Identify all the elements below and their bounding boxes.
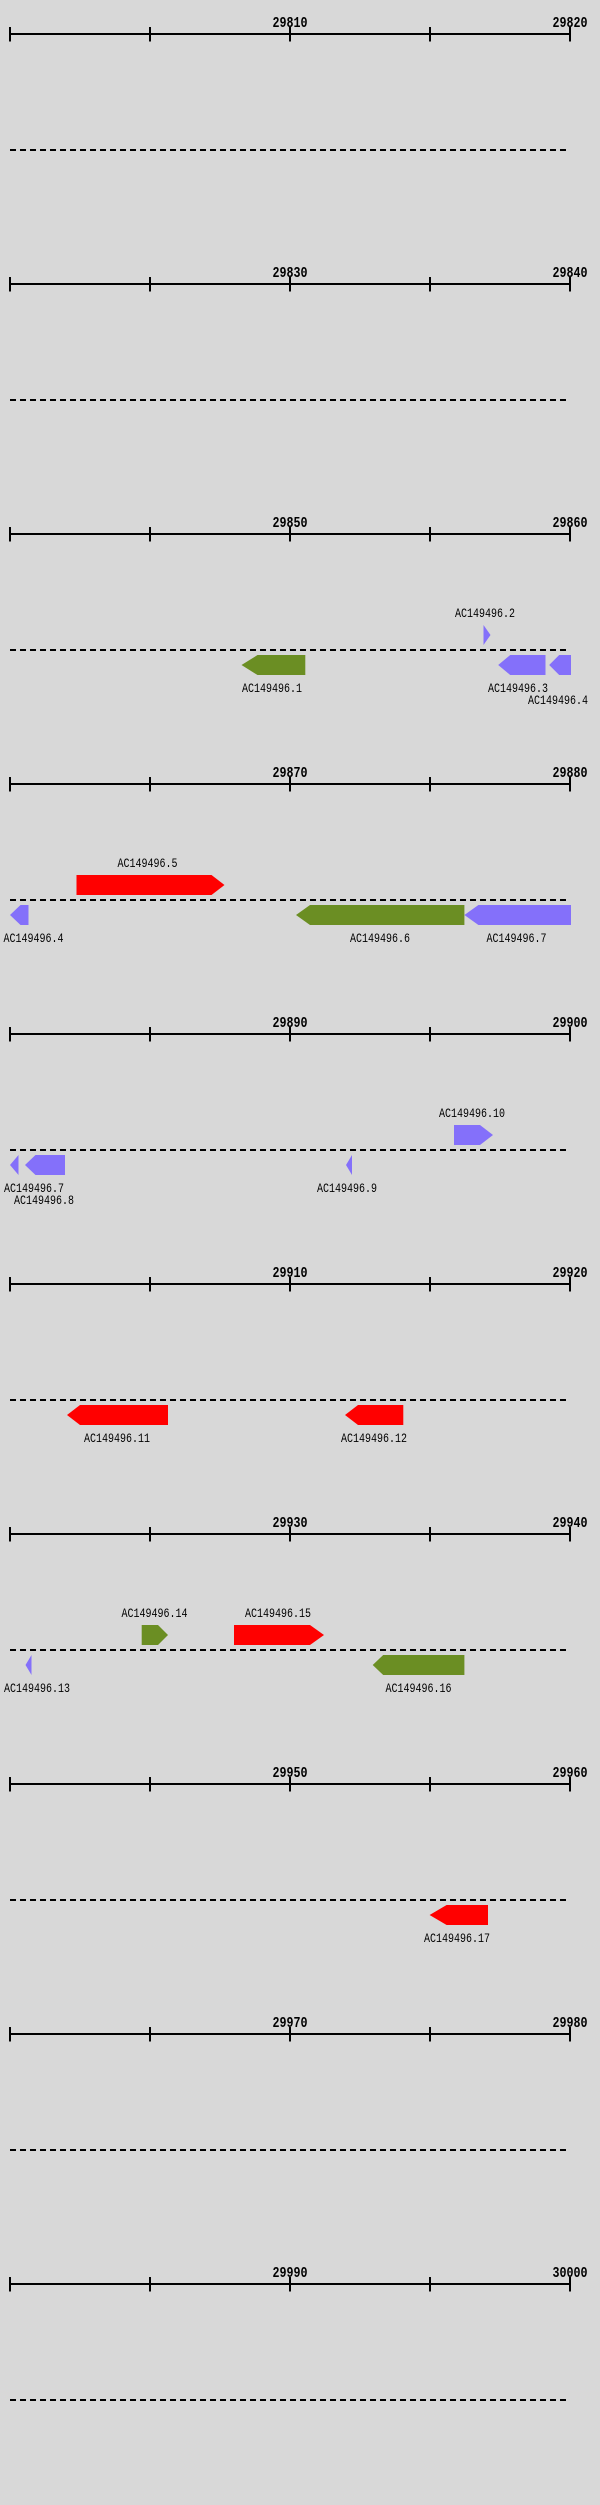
- svg-text:29990: 29990: [273, 2265, 308, 2282]
- feature AC149496.1 (reverse, green): [242, 655, 306, 675]
- panel 4 sequence dashed line: [10, 899, 570, 901]
- panel 8 tick 3: [289, 1777, 291, 1792]
- panel 6 tick 4: [429, 1277, 431, 1292]
- panel 1 tick 2: [149, 27, 151, 42]
- svg-text:29940: 29940: [553, 1515, 588, 1532]
- feature AC149496.3 (reverse, purple): [498, 655, 545, 675]
- panel 3 ruler line: [9, 533, 571, 535]
- panel 2 tick 5: [569, 277, 571, 292]
- feature AC149496.4 continued (reverse, purple): [10, 905, 29, 925]
- feature AC149496.16 (reverse, green): [373, 1655, 465, 1675]
- svg-text:30000: 30000: [553, 2265, 588, 2282]
- panel 3 sequence dashed line: [10, 649, 570, 651]
- feature AC149496.17 (reverse, red): [430, 1905, 488, 1925]
- panel 8 tick 1: [9, 1777, 11, 1792]
- feature AC149496.4 (reverse, purple, clipped at panel edge): [549, 655, 571, 675]
- svg-text:AC149496.9: AC149496.9: [317, 1181, 377, 1196]
- svg-text:29970: 29970: [273, 2015, 308, 2032]
- svg-text:AC149496.10: AC149496.10: [439, 1106, 505, 1121]
- svg-text:AC149496.4: AC149496.4: [4, 931, 64, 946]
- panel 8 ruler line: [9, 1783, 571, 1785]
- feature AC149496.2 (forward, purple): [484, 625, 491, 645]
- panel 6 tick 5: [569, 1277, 571, 1292]
- svg-text:29980: 29980: [553, 2015, 588, 2032]
- svg-text:29930: 29930: [273, 1515, 308, 1532]
- svg-text:AC149496.16: AC149496.16: [386, 1681, 452, 1696]
- panel 4 tick 2: [149, 777, 151, 792]
- panel 8 tick 2: [149, 1777, 151, 1792]
- svg-text:29820: 29820: [553, 15, 588, 32]
- svg-text:29840: 29840: [553, 265, 588, 282]
- panel 3 tick 2: [149, 527, 151, 542]
- panel 10 tick 1: [9, 2277, 11, 2292]
- panel 10 ruler line: [9, 2283, 571, 2285]
- panel 1 ruler line: [9, 33, 571, 35]
- svg-text:AC149496.7: AC149496.7: [487, 931, 547, 946]
- panel 4 tick 3: [289, 777, 291, 792]
- panel 5 tick 1: [9, 1027, 11, 1042]
- svg-text:AC149496.11: AC149496.11: [84, 1431, 150, 1446]
- panel 10 tick 5: [569, 2277, 571, 2292]
- svg-text:29910: 29910: [273, 1265, 308, 1282]
- svg-text:29880: 29880: [553, 765, 588, 782]
- panel 7 tick 3: [289, 1527, 291, 1542]
- panel 10 sequence dashed line: [10, 2399, 570, 2401]
- panel 2 ruler line: [9, 283, 571, 285]
- panel 7 tick 2: [149, 1527, 151, 1542]
- svg-text:29920: 29920: [553, 1265, 588, 1282]
- svg-text:AC149496.1: AC149496.1: [242, 681, 302, 696]
- panel 6 tick 3: [289, 1277, 291, 1292]
- panel 2 tick 1: [9, 277, 11, 292]
- panel 2 sequence dashed line: [10, 399, 570, 401]
- panel 9 tick 1: [9, 2027, 11, 2042]
- panel 8 sequence dashed line: [10, 1899, 570, 1901]
- panel 10 tick 3: [289, 2277, 291, 2292]
- feature AC149496.7 continued (reverse, purple): [10, 1155, 19, 1175]
- panel 2 tick 3: [289, 277, 291, 292]
- svg-text:29870: 29870: [273, 765, 308, 782]
- feature AC149496.5 (forward, red): [77, 875, 225, 895]
- svg-text:AC149496.15: AC149496.15: [245, 1606, 311, 1621]
- panel 4 ruler line: [9, 783, 571, 785]
- panel 9 ruler line: [9, 2033, 571, 2035]
- panel 8 tick 5: [569, 1777, 571, 1792]
- panel 9 tick 2: [149, 2027, 151, 2042]
- panel 2 tick 4: [429, 277, 431, 292]
- panel 4 tick 1: [9, 777, 11, 792]
- panel 3 tick 5: [569, 527, 571, 542]
- panel 9 tick 4: [429, 2027, 431, 2042]
- svg-text:29830: 29830: [273, 265, 308, 282]
- feature AC149496.10 (forward, purple): [454, 1125, 493, 1145]
- panel 4 tick 5: [569, 777, 571, 792]
- panel 1 tick 1: [9, 27, 11, 42]
- svg-text:29810: 29810: [273, 15, 308, 32]
- panel 10 tick 4: [429, 2277, 431, 2292]
- svg-text:AC149496.13: AC149496.13: [4, 1681, 70, 1696]
- panel 6 tick 1: [9, 1277, 11, 1292]
- feature AC149496.6 (reverse, green): [296, 905, 464, 925]
- panel 3 tick 1: [9, 527, 11, 542]
- panel 5 tick 4: [429, 1027, 431, 1042]
- svg-text:AC149496.6: AC149496.6: [350, 931, 410, 946]
- panel 9 sequence dashed line: [10, 2149, 570, 2151]
- panel 6 sequence dashed line: [10, 1399, 570, 1401]
- panel 3 tick 3: [289, 527, 291, 542]
- feature AC149496.15 (forward, red): [234, 1625, 324, 1645]
- svg-text:29900: 29900: [553, 1015, 588, 1032]
- panel 8 tick 4: [429, 1777, 431, 1792]
- panel 3 tick 4: [429, 527, 431, 542]
- panel 5 tick 2: [149, 1027, 151, 1042]
- feature AC149496.12 (reverse, red): [345, 1405, 403, 1425]
- panel 5 tick 5: [569, 1027, 571, 1042]
- panel 5 sequence dashed line: [10, 1149, 570, 1151]
- svg-text:29850: 29850: [273, 515, 308, 532]
- panel 7 tick 5: [569, 1527, 571, 1542]
- panel 9 tick 3: [289, 2027, 291, 2042]
- svg-text:AC149496.8: AC149496.8: [14, 1193, 74, 1208]
- feature AC149496.9 (reverse, purple, tiny): [346, 1155, 352, 1175]
- panel 7 tick 4: [429, 1527, 431, 1542]
- panel 10 tick 2: [149, 2277, 151, 2292]
- panel 1 sequence dashed line: [10, 149, 570, 151]
- svg-text:29860: 29860: [553, 515, 588, 532]
- panel 1 tick 3: [289, 27, 291, 42]
- feature AC149496.14 (forward, green): [142, 1625, 168, 1645]
- panel 9 tick 5: [569, 2027, 571, 2042]
- panel 4 tick 4: [429, 777, 431, 792]
- panel 5 ruler line: [9, 1033, 571, 1035]
- panel 2 tick 2: [149, 277, 151, 292]
- svg-text:29890: 29890: [273, 1015, 308, 1032]
- svg-text:AC149496.4: AC149496.4: [528, 693, 588, 708]
- feature AC149496.11 (reverse, red): [67, 1405, 168, 1425]
- svg-text:29950: 29950: [273, 1765, 308, 1782]
- panel 6 ruler line: [9, 1283, 571, 1285]
- svg-text:AC149496.14: AC149496.14: [122, 1606, 188, 1621]
- panel 7 ruler line: [9, 1533, 571, 1535]
- panel 1 tick 4: [429, 27, 431, 42]
- panel 7 sequence dashed line: [10, 1649, 570, 1651]
- svg-text:AC149496.5: AC149496.5: [118, 856, 178, 871]
- svg-text:AC149496.2: AC149496.2: [455, 606, 515, 621]
- panel 7 tick 1: [9, 1527, 11, 1542]
- svg-text:29960: 29960: [553, 1765, 588, 1782]
- panel 1 tick 5: [569, 27, 571, 42]
- panel 5 tick 3: [289, 1027, 291, 1042]
- panel 6 tick 2: [149, 1277, 151, 1292]
- svg-text:AC149496.12: AC149496.12: [341, 1431, 407, 1446]
- feature AC149496.8 (reverse, purple): [25, 1155, 65, 1175]
- feature AC149496.13 (reverse, purple, tiny): [26, 1655, 32, 1675]
- svg-text:AC149496.17: AC149496.17: [424, 1931, 490, 1946]
- feature AC149496.7 (reverse, purple, clipped at panel edge): [464, 905, 571, 925]
